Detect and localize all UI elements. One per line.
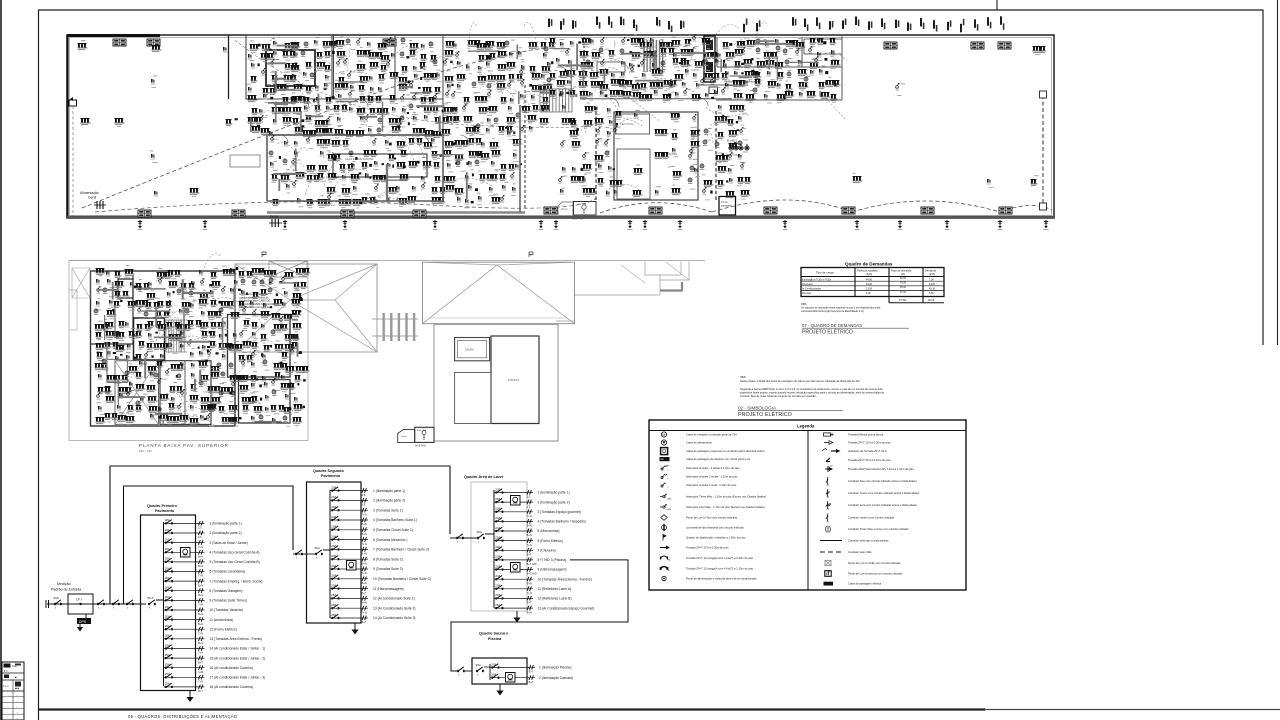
svg-text:Quadro Primeiro: Quadro Primeiro [147, 504, 178, 508]
right building hip roof [423, 262, 575, 324]
svg-text:Interruptor simples - 3 teclas: Interruptor simples - 3 teclas a 1,10m d… [686, 466, 740, 470]
svg-text:Ponto de Luz na piscina com ci: Ponto de Luz na piscina com circuito ind… [848, 572, 903, 576]
legend symbol pisc [825, 571, 903, 577]
legend symbol diam [661, 515, 738, 521]
svg-text:T+N: T+N [527, 514, 532, 518]
svg-text:Condutor neutro com circuito i: Condutor neutro com circuito indicado ac… [848, 491, 920, 495]
svg-text:2,5: 2,5 [362, 493, 366, 497]
gray line across at 261 [69, 260, 705, 262]
svg-text:2 (Iluminação parte 2): 2 (Iluminação parte 2) [373, 499, 405, 503]
svg-text:Interruptor Three Way - 1,10m: Interruptor Three Way - 1,10m do piso (E… [686, 495, 766, 499]
shed left of pool on bottom wall [558, 202, 573, 215]
legend symbol fase [826, 477, 917, 487]
breaker QA circuit 2 [494, 497, 570, 508]
svg-text:Caixa de passagem elétrica: Caixa de passagem elétrica [848, 582, 882, 586]
svg-text:7 (Tomadas Empreg. / Banh. Soc: 7 (Tomadas Empreg. / Banh. Social) [210, 579, 263, 583]
svg-text:OBS:: OBS: [801, 303, 807, 306]
legend symbol qd [663, 535, 746, 541]
legend symbol sq_fill [660, 457, 751, 461]
breaker QSP circuit 1 [490, 662, 571, 673]
sheet frame top-right stub [997, 0, 1278, 345]
QA branch circuits [494, 487, 594, 614]
right dense block edge [716, 35, 842, 100]
svg-text:4 (Tomadas Banheiro / Depósito: 4 (Tomadas Banheiro / Depósito) [538, 520, 586, 524]
svg-text:B+N: B+N [198, 612, 203, 616]
svg-text:ᵀ▪: ᵀ▪ [15, 683, 17, 686]
svg-text:12 (Refletores Lazer B): 12 (Refletores Lazer B) [538, 597, 572, 601]
breaker QA circuit 11 [494, 584, 571, 595]
svg-text:B+N: B+N [362, 581, 367, 585]
legend symbol circ_d [662, 576, 757, 580]
svg-text:B+N: B+N [527, 524, 532, 528]
svg-text:6,06: 6,06 [866, 292, 871, 295]
svg-text:Pavimento: Pavimento [155, 509, 175, 513]
svg-text:PISCINA: PISCINA [508, 378, 519, 382]
svg-text:B+N: B+N [198, 564, 203, 568]
svg-text:4 (Tomadas Banheiro Suíte 1): 4 (Tomadas Banheiro Suíte 1) [373, 518, 417, 522]
svg-text:SAUNA: SAUNA [465, 348, 474, 352]
QP DR device [181, 548, 191, 558]
upper bottom-center rooms [160, 361, 211, 425]
upper pool [491, 336, 539, 424]
section flags [262, 252, 266, 257]
extra sala walls [267, 105, 520, 212]
svg-text:Chuveiros: Chuveiros [802, 283, 814, 286]
breaker QA circuit 12 [494, 593, 572, 604]
svg-text:PLANTA BAIXA PAV. SUPERIOR: PLANTA BAIXA PAV. SUPERIOR [139, 443, 229, 448]
QA ground [513, 611, 520, 623]
legend symbol ind [822, 449, 887, 453]
legend symbol pia [824, 433, 884, 437]
svg-text:11 (Refletores Lazer A): 11 (Refletores Lazer A) [538, 587, 572, 591]
cx passagem box [719, 197, 736, 216]
room top-left block [246, 35, 332, 99]
svg-text:Condutor fase com circuito ind: Condutor fase com circuito indicado acim… [848, 479, 917, 483]
svg-text:B+N: B+N [198, 583, 203, 587]
svg-text:Ar Condicionados: Ar Condicionados [802, 288, 822, 291]
breaker QS circuit 5 [330, 525, 413, 536]
svg-text:Condutor pela laje ou pela par: Condutor pela laje ou pela parede [848, 539, 889, 543]
svg-text:Quadro Área de Lazer: Quadro Área de Lazer [464, 474, 504, 479]
breaker QP circuit 16 [164, 663, 253, 674]
quadro area de lazer box [471, 482, 527, 611]
svg-text:Geral: Geral [88, 196, 97, 200]
wire second bus to segundo pavimento [124, 486, 294, 604]
ground floor plan outer wall [67, 35, 1054, 218]
upper bath room [118, 279, 133, 298]
svg-text:B+N: B+N [527, 581, 532, 585]
legend symbol terra [826, 501, 918, 511]
breaker QP circuit 4 [164, 547, 260, 558]
svg-text:Neste projeto, a bitola dos du: Neste projeto, a bitola dos dutos de pas… [740, 379, 861, 383]
legend symbol circ_m [661, 432, 737, 437]
breaker QS circuit 3 [330, 505, 403, 516]
svg-text:8 (Tomadas Garagem): 8 (Tomadas Garagem) [210, 589, 243, 593]
pool rect [614, 112, 698, 200]
svg-text:B+T: B+T [529, 680, 534, 684]
breaker QS circuit 7 [330, 544, 429, 555]
quadro segundo pavimento box [307, 482, 362, 623]
svg-text:65,00: 65,00 [900, 286, 907, 289]
svg-text:T+N: T+N [198, 651, 203, 655]
svg-text:07 - QUADRO DE DEMANDAS: 07 - QUADRO DE DEMANDAS [802, 323, 862, 328]
breaker QA circuit 1 [494, 487, 570, 498]
svg-text:-·-: -·- [16, 701, 18, 703]
legend symbol lum [662, 524, 745, 531]
breaker QA circuit 9 [494, 564, 566, 575]
feeder dashed curve top [235, 40, 597, 128]
svg-text:Padrão de Entrada: Padrão de Entrada [51, 588, 81, 592]
door arcs [280, 67, 708, 144]
svg-text:Legenda: Legenda [797, 424, 815, 429]
svg-text:superiores neste projeto, exce: superiores neste projeto, exceto quando … [740, 391, 885, 395]
breaker QS circuit 8 [330, 554, 403, 565]
svg-text:(kVA): (kVA) [929, 273, 935, 276]
svg-text:abrigo: abrigo [401, 435, 408, 438]
QP main breaker [148, 596, 156, 609]
breaker QP circuit 9 [164, 595, 248, 606]
legend symbol tom_m [661, 556, 754, 562]
svg-text:B+T: B+T [198, 689, 203, 693]
breaker QS circuit 6 [330, 534, 407, 545]
breaker QS circuit 11 [330, 583, 404, 594]
svg-text:8: 8 [826, 572, 828, 576]
svg-text:abrigo: abrigo [561, 208, 568, 211]
staircase [540, 89, 572, 112]
left edge title block [2, 662, 24, 720]
svg-text:50A: 50A [315, 546, 320, 550]
below-wall anchor symbols [138, 220, 1049, 230]
svg-text:18 (Ar condicionado Cozinha): 18 (Ar condicionado Cozinha) [210, 685, 253, 689]
breaker QP circuit 1 [164, 518, 242, 529]
svg-text:B+N: B+N [362, 552, 367, 556]
svg-text:9 (Hidromassagem): 9 (Hidromassagem) [538, 568, 567, 572]
legend symbol neutro [826, 489, 920, 499]
svg-text:T+N: T+N [362, 610, 367, 614]
svg-text:Caixa de passagem suspensa no: Caixa de passagem suspensa no pé-direito… [686, 449, 766, 453]
ground floor bottom wall (thick) [67, 216, 1054, 218]
svg-text:condutor fase de maior bitola: condutor fase de maior bitola do conjunt… [740, 394, 817, 398]
breaker entrance [54, 596, 62, 609]
QS DR device [347, 561, 357, 571]
svg-text:-·-: -·- [16, 706, 18, 708]
legend symbol tick [826, 458, 891, 462]
svg-text:-·-: -·- [16, 695, 18, 697]
plan note text [239, 292, 279, 309]
breaker QSP circuit 2 [490, 673, 573, 684]
pool sub-room lower [617, 149, 650, 199]
svg-text:T+N: T+N [527, 543, 532, 547]
svg-text:Tomada 220V (Herméticas) 2P+T: Tomada 220V (Herméticas) 2P+T 20 A a 1,1… [848, 467, 914, 471]
svg-text:T+N: T+N [362, 542, 367, 546]
svg-text:passagem: passagem [721, 205, 732, 208]
QP bus [163, 522, 165, 686]
quadro de demandas table [801, 268, 944, 303]
stepped roof outlines right [556, 262, 689, 322]
svg-text:B+T: B+T [527, 601, 532, 605]
svg-text:Tipo de carga: Tipo de carga [816, 271, 834, 275]
svg-text:9 (Tomadas Suíte 3): 9 (Tomadas Suíte 3) [373, 567, 403, 571]
upper floor outline light [69, 261, 308, 441]
svg-text:2,5: 2,5 [198, 535, 202, 539]
legend symbol int1 [661, 483, 737, 489]
svg-text:Diversos: Diversos [802, 292, 812, 295]
breaker QP circuit 5 [164, 557, 260, 568]
svg-text:Condutor terra com circuito in: Condutor terra com circuito indicado aci… [848, 503, 918, 507]
svg-text:3 (Tomadas Suíte 1): 3 (Tomadas Suíte 1) [373, 508, 403, 512]
svg-text:Pavimento: Pavimento [321, 474, 341, 478]
breaker QP circuit 14 [164, 643, 266, 654]
legend symbol int2 [661, 474, 738, 480]
sala table [333, 154, 427, 177]
breaker QP circuit 3 [164, 537, 248, 548]
svg-text:49,16: 49,16 [929, 288, 936, 291]
svg-text:Caixa de aterramento: Caixa de aterramento [686, 441, 712, 445]
breaker QA circuit 6 [494, 535, 563, 547]
interior gray wall bottom strip [267, 211, 525, 213]
svg-text:Tomada 2P+T 10 (carga)A com 4: Tomada 2P+T 10 (carga)A com 4 (4x2") a 1… [686, 567, 754, 571]
svg-text:7,04: 7,04 [929, 278, 934, 281]
legend symbol cxe [824, 582, 882, 586]
QP ground [186, 691, 193, 703]
svg-text:-·-: -·- [16, 712, 18, 714]
svg-text:B+N: B+N [362, 561, 367, 565]
svg-text:13 (Ar Condicionado Suíte 2): 13 (Ar Condicionado Suíte 2) [373, 606, 416, 610]
svg-text:Geral: Geral [270, 215, 278, 219]
svg-text:3 (Salas de Estar / Jantar): 3 (Salas de Estar / Jantar) [210, 541, 248, 545]
svg-text:Piscina: Piscina [488, 637, 502, 641]
svg-text:tel: tel [661, 457, 664, 461]
QS feed breaker [295, 550, 303, 560]
legend symbol ret [826, 514, 895, 524]
svg-text:8 (Tomadas Suíte 2): 8 (Tomadas Suíte 2) [373, 557, 403, 561]
svg-text:13 (Tomadas Área Externa - Fre: 13 (Tomadas Área Externa - Frente) [210, 637, 263, 641]
svg-text:B+N: B+N [362, 522, 367, 526]
svg-text:B+N: B+N [362, 601, 367, 605]
QS branch circuits [330, 485, 431, 624]
pergola bars [372, 313, 418, 341]
legend symbol v220 [825, 465, 914, 472]
svg-text:T+N: T+N [362, 512, 367, 516]
svg-text:2 (Iluminação parte 2): 2 (Iluminação parte 2) [210, 531, 242, 535]
svg-text:44,06: 44,06 [866, 283, 873, 286]
svg-text:PROJETO ELÉTRICO: PROJETO ELÉTRICO [738, 411, 792, 418]
top-left small X-rect [72, 268, 90, 298]
svg-text:4 (Tomadas Uso Geral Cozinha A: 4 (Tomadas Uso Geral Cozinha A) [210, 551, 260, 555]
symbol cluster terreo pool west [559, 103, 643, 198]
svg-text:A+B: A+B [198, 670, 203, 674]
QS bus [329, 490, 331, 618]
breaker QA circuit 13 [494, 603, 594, 614]
svg-text:(%): (%) [901, 273, 905, 276]
breaker QP circuit 11 [164, 614, 234, 625]
svg-text:(kVA): (kVA) [866, 273, 872, 276]
medicao box [68, 594, 93, 614]
breaker QS circuit 13 [330, 603, 416, 614]
svg-text:T+N: T+N [198, 680, 203, 684]
svg-text:T+N: T+N [198, 631, 203, 635]
svg-text:OBS:: OBS: [740, 375, 746, 379]
svg-text:Alimentação: Alimentação [80, 191, 99, 195]
svg-text:B+N: B+N [362, 532, 367, 536]
svg-text:T+N: T+N [527, 591, 532, 595]
breaker QS circuit 9 [330, 564, 403, 575]
svg-text:16 (Ar condicionado Cozinha): 16 (Ar condicionado Cozinha) [210, 666, 253, 670]
small 2-cell box bottom [398, 429, 415, 442]
QA bus [493, 490, 495, 608]
svg-text:Quadro Segundo: Quadro Segundo [313, 469, 344, 473]
svg-text:5 (Microondas): 5 (Microondas) [538, 529, 560, 533]
svg-text:Tomada 2P+T 10 A a 0,30m do p: Tomada 2P+T 10 A a 0,30m do piso [848, 441, 891, 445]
symbol cluster terreo right sparse [852, 46, 1046, 188]
svg-text:10 (Tomadas Banheiro / Closet: 10 (Tomadas Banheiro / Closet Suíte 3) [373, 577, 431, 581]
breaker QA circuit 5 [494, 526, 560, 537]
svg-text:Ponto de Luz no Teto com circu: Ponto de Luz no Teto com circuito indica… [686, 516, 738, 520]
svg-text:DPS: DPS [79, 620, 87, 624]
legend symbol chao [825, 560, 901, 565]
svg-text:Indicativo de Tomada 2P+T 20 A: Indicativo de Tomada 2P+T 20 A [848, 449, 887, 453]
svg-text:5 (Tomadas Uso Geral Cozinha B: 5 (Tomadas Uso Geral Cozinha B) [210, 560, 260, 564]
breaker QS circuit 12 [330, 593, 415, 604]
legend symbol fw [660, 504, 765, 511]
svg-text:10 (Tomadas Varanda): 10 (Tomadas Varanda) [210, 608, 243, 612]
svg-text:76,00: 76,00 [900, 282, 907, 285]
symbol cluster terreo pool east [688, 105, 751, 200]
svg-text:9 (Tomadas Suíte Térreo): 9 (Tomadas Suíte Térreo) [210, 599, 248, 603]
wall verticals central rooms [334, 35, 444, 135]
svg-text:30A: 30A [476, 663, 481, 667]
svg-text:■ h=: ■ h= [4, 670, 9, 673]
svg-text:Interruptor Four Way - 1,10m d: Interruptor Four Way - 1,10m do piso (Ex… [686, 505, 765, 509]
legend symbol arr_o [824, 441, 891, 445]
svg-text:44,96: 44,96 [866, 278, 873, 281]
breaker QS circuit 1 [330, 485, 405, 496]
pump group [726, 139, 749, 158]
svg-text:1 (Iluminação parte 1): 1 (Iluminação parte 1) [210, 522, 242, 526]
legend left column [660, 432, 767, 581]
legend symbol tw_c [826, 526, 909, 533]
svg-text:Condutor pelo chão: Condutor pelo chão [848, 550, 872, 554]
svg-text:6 (Tomadas Lavanderia): 6 (Tomadas Lavanderia) [210, 570, 246, 574]
sauna ground [496, 684, 503, 696]
legend symbol tw [660, 494, 766, 501]
svg-text:B+T HID: B+T HID [527, 572, 537, 576]
svg-text:Medição: Medição [57, 582, 71, 586]
svg-text:Ponto de alimentação e saída d: Ponto de alimentação e saída de aterro d… [686, 577, 757, 581]
symbol cluster terreo service [544, 22, 847, 120]
svg-text:17 (Ar condicionado Estar / Ja: 17 (Ar condicionado Estar / Jantar - 3) [210, 676, 266, 680]
svg-text:40,06: 40,06 [928, 299, 935, 302]
svg-text:B+T: B+T [198, 660, 203, 664]
service rooms right block [580, 37, 842, 99]
svg-text:Caixa de passagem de telefone: Caixa de passagem de telefone com 4x2/4 … [686, 457, 751, 461]
upper terrace with X [115, 361, 159, 425]
svg-text:Caixa de medição e proteção ge: Caixa de medição e proteção geral de 75A [686, 433, 737, 437]
legend symbol tom_a [661, 567, 754, 573]
dark door band [704, 36, 715, 82]
small x-box [709, 87, 718, 94]
svg-text:14 (Ar Condicionado Suíte 3): 14 (Ar Condicionado Suíte 3) [373, 616, 416, 620]
svg-text:T+N: T+N [198, 545, 203, 549]
svg-text:CP x: CP x [76, 598, 83, 602]
svg-text:Condutor retorno com circuito: Condutor retorno com circuito indicado [848, 516, 895, 520]
wall box symbols top/bottom walls [113, 39, 1012, 217]
ground floor thick top-left wall [67, 34, 160, 37]
quadro sauna box [472, 658, 527, 684]
breaker QP circuit 13 [164, 634, 263, 645]
symbol cluster pav superior dense [94, 254, 310, 427]
closet hatch [644, 40, 663, 72]
breaker QS circuit 4 [330, 515, 417, 526]
feeder dashed curve main [82, 48, 545, 208]
corridor dashed wall [524, 85, 526, 210]
wall horizontal mid (sala top) [267, 134, 443, 136]
breaker QA circuit 7 [494, 545, 556, 556]
breaker QS circuit 14 [330, 613, 416, 624]
svg-text:Tomada 2P+T 10 A a 0,30m do p: Tomada 2P+T 10 A a 0,30m do piso [686, 546, 729, 550]
breaker QS circuit 2 [330, 495, 405, 506]
svg-text:11 (ar/condutos): 11 (ar/condutos) [210, 618, 234, 622]
svg-text:12 (Forno Elétrico): 12 (Forno Elétrico) [210, 627, 237, 631]
svg-text:I Lᵤ¹: I Lᵤ¹ [3, 684, 8, 688]
breaker QP circuit 6 [164, 566, 246, 577]
pool sub-room upper [616, 114, 650, 134]
left wall small box [69, 100, 77, 106]
room below sauna [455, 372, 491, 423]
junction box mid [679, 254, 681, 256]
sheet frame bottom line [39, 708, 986, 710]
svg-text:B+T: B+T [527, 553, 532, 557]
svg-text:M: M [662, 433, 665, 437]
svg-text:46,06: 46,06 [900, 277, 907, 280]
svg-text:63A: 63A [54, 596, 59, 600]
breaker QA circuit 8 [494, 555, 566, 566]
breaker QP circuit 7 [164, 576, 263, 587]
svg-text:3#35 T#16: 3#35 T#16 [572, 218, 584, 221]
legend symbol sol [820, 539, 889, 543]
kitchen counters [597, 62, 625, 72]
svg-text:Ponto de Luz no Chão com circu: Ponto de Luz no Chão com circuito indica… [848, 561, 901, 565]
upper right suite 1 [228, 315, 291, 378]
pool building dashed walls [596, 111, 716, 200]
svg-text:◆ ■: ◆ ■ [15, 687, 20, 690]
QA DR devices [511, 496, 521, 506]
svg-text:Condutor Three Way ou Four com: Condutor Three Way ou Four com circuito … [848, 527, 909, 531]
svg-text:MED 50A: MED 50A [417, 429, 427, 432]
svg-text:2,5: 2,5 [198, 526, 202, 530]
upper right suite 2 [239, 380, 291, 424]
svg-text:67,00: 67,00 [900, 291, 907, 294]
svg-text:B+T HID: B+T HID [527, 562, 537, 566]
wall vertical garage/living divider [228, 35, 230, 99]
legend symbol int3 [661, 465, 740, 471]
svg-text:7 (Tomadas Banheiro / Closet S: 7 (Tomadas Banheiro / Closet Suíte 2) [373, 548, 429, 552]
sala / cozinha big room [267, 135, 443, 201]
breaker QS circuit 10 [330, 574, 431, 585]
upper stairs comb [166, 320, 187, 352]
utility tap marks [46, 600, 49, 608]
svg-text:3#16 T#16: 3#16 T#16 [415, 446, 427, 448]
svg-text:2 (Iluminação Cascata): 2 (Iluminação Cascata) [539, 676, 573, 680]
sauna room [455, 338, 490, 361]
dashed vertical right area [1042, 95, 1044, 205]
QA feed breakers [450, 537, 478, 539]
svg-text:Seguindo a Norma NBR 5410, no: Seguindo a Norma NBR 5410, no item 6.4.3… [740, 387, 883, 391]
svg-text:B+N: B+N [198, 622, 203, 626]
svg-text:Tomada 2P+T 20 A a 1,10m do p: Tomada 2P+T 20 A a 1,10m do piso [848, 458, 891, 462]
svg-text:2,5: 2,5 [527, 504, 531, 508]
symbol cluster terreo pool [614, 110, 701, 197]
